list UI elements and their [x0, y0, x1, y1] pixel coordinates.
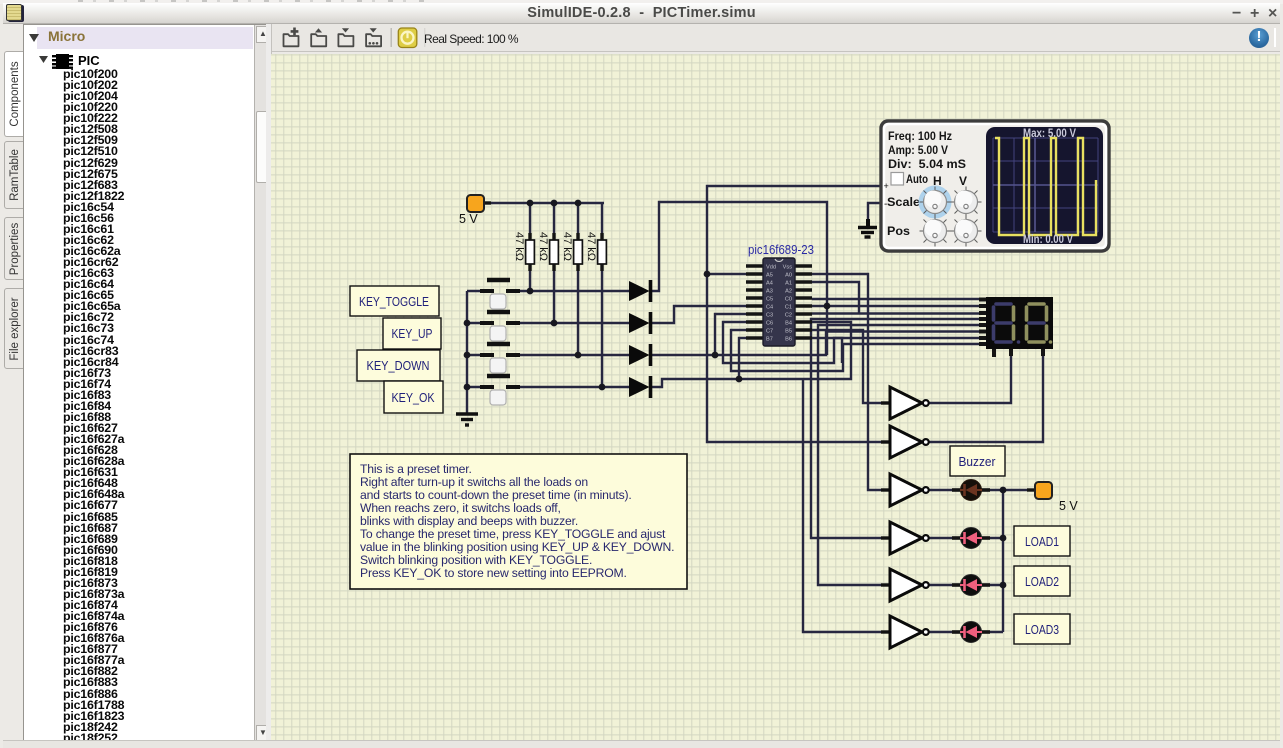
wire inverter2 out to display bottom pin3 [929, 349, 1043, 442]
switch KEY_DOWN [480, 344, 520, 373]
led LED2 [952, 575, 990, 596]
wire R1 top lead [529, 203, 531, 240]
wire net B7 stub [739, 338, 746, 379]
svg-text:+: + [884, 181, 889, 191]
wire 5V rail top [483, 202, 604, 204]
resistor R3 47k [561, 232, 582, 271]
svg-text:Scale: Scale [887, 195, 920, 209]
svg-text:Buzzer: Buzzer [959, 455, 996, 469]
svg-text:47 kΩ: 47 kΩ [561, 232, 573, 261]
wire buzzer to 5V [982, 489, 1035, 491]
resistor R1 47k [513, 232, 534, 271]
svg-text:B6: B6 [785, 337, 792, 343]
svg-text:A5: A5 [766, 273, 773, 279]
voltage source V1 5V [459, 195, 491, 226]
wire inverter4 out to led1 [929, 537, 960, 539]
svg-text:5 V: 5 V [459, 212, 478, 226]
label LOAD1 [1014, 526, 1070, 556]
svg-text:B4: B4 [785, 321, 792, 327]
inverter U6 [881, 569, 929, 601]
wire C1 to display pin2 [812, 305, 979, 307]
svg-text:V: V [959, 174, 967, 188]
wire key row3 [467, 354, 494, 356]
wire B6 to C6 net [812, 338, 842, 363]
scope screen [986, 127, 1103, 244]
inverter U4 [881, 474, 929, 506]
node led2 rail [1000, 582, 1007, 589]
svg-text:5 V: 5 V [1059, 499, 1078, 513]
svg-text:C7: C7 [766, 329, 773, 335]
node C3 [712, 352, 719, 359]
svg-text:KEY_DOWN: KEY_DOWN [367, 359, 430, 373]
svg-text:Pos: Pos [887, 224, 910, 238]
wire R4 bottom lead [601, 264, 603, 387]
svg-text:Max: 5.00 V: Max: 5.00 V [1023, 128, 1076, 140]
scope trace [995, 138, 1096, 235]
svg-text:A3: A3 [766, 289, 773, 295]
switch KEY_TOGGLE [480, 280, 520, 309]
diode D3 [629, 344, 651, 366]
wire net C6 to display pin7 [723, 322, 979, 363]
svg-text:LOAD1: LOAD1 [1025, 535, 1059, 549]
wire R4 top lead [601, 203, 603, 240]
node buzzer rail [1000, 487, 1007, 494]
wire net A5 scope and inverter2 [707, 186, 890, 442]
wire led3 to rail [982, 631, 1003, 633]
digit 2 (shows 0) [1027, 304, 1053, 344]
svg-text:To change the preset time, pre: To change the preset time, press KEY_TOG… [360, 527, 666, 541]
diode D2 [629, 312, 651, 334]
wire diode2 to C4 [650, 306, 746, 323]
wire inverter1 out to display bottom pin2 [929, 349, 1011, 403]
wire 5V anode rail [1002, 490, 1004, 632]
node rail R1 [527, 200, 534, 207]
inverter U7 [881, 616, 929, 648]
svg-text:Press KEY_OK to store new sett: Press KEY_OK to store new setting into E… [360, 566, 627, 580]
wire led1 to rail [982, 537, 1003, 539]
node row1 pullup [527, 288, 534, 295]
svg-text:47 kΩ: 47 kΩ [513, 232, 525, 261]
svg-text:pic16f689-23: pic16f689-23 [748, 243, 814, 257]
svg-text:B7: B7 [766, 337, 773, 343]
svg-text:KEY_OK: KEY_OK [392, 391, 436, 405]
svg-text:-: - [884, 199, 887, 210]
label LOAD3 [1014, 614, 1070, 644]
ground GND1 [456, 414, 478, 425]
wire net C7 to display pin8 [731, 330, 979, 371]
inverter U5 [881, 522, 929, 554]
wire A0 to inverter3 [812, 274, 890, 490]
node row4 pullup [599, 384, 606, 391]
svg-text:C1: C1 [785, 305, 792, 311]
wire R1 bottom lead [529, 264, 531, 291]
wire key row4 [467, 386, 494, 388]
wire R3 bottom lead [577, 264, 579, 355]
svg-text:Min: 0.00 V: Min: 0.00 V [1023, 234, 1073, 246]
svg-text:LOAD2: LOAD2 [1025, 575, 1059, 589]
svg-text:C4: C4 [766, 305, 773, 311]
wire ground bus [466, 291, 468, 414]
ground GND2 near scope [858, 219, 877, 237]
wire scope minus to ground [868, 203, 883, 222]
wire display pin5 to inverter5 [818, 325, 979, 585]
svg-text:Vdd: Vdd [766, 265, 776, 271]
resistor R2 47k [537, 232, 558, 271]
node bus row2 [464, 320, 471, 327]
led LED1 [952, 528, 990, 549]
wire B5 to inverter1 [812, 330, 890, 403]
buzzer BZ1 [952, 480, 990, 501]
resistor R4 47k [585, 232, 606, 271]
wire led2 to rail [982, 584, 1003, 586]
svg-text:C0: C0 [785, 297, 792, 303]
svg-text:blinks with display and beeps: blinks with display and beeps with buzze… [360, 514, 578, 528]
wire key row1 [467, 290, 494, 292]
svg-text:Switch blinking position with: Switch blinking position with KEY_TOGGLE… [360, 553, 592, 567]
svg-text:A4: A4 [766, 281, 773, 287]
svg-text:A2: A2 [785, 289, 792, 295]
node row3 pullup [575, 352, 582, 359]
label KEY_DOWN [357, 350, 440, 381]
microcontroller U1 pic16f689 [746, 243, 814, 346]
node bus row4 [464, 384, 471, 391]
seven segment display [979, 297, 1053, 357]
switch KEY_UP [480, 312, 520, 341]
svg-text:When reachs zero, it switchs l: When reachs zero, it switchs loads off, [360, 501, 561, 515]
wire diode4 to B7 node [650, 379, 739, 387]
svg-text:Auto: Auto [906, 172, 928, 186]
switch KEY_OK [480, 376, 520, 405]
wire R2 bottom lead [553, 264, 555, 323]
node row2 pullup [551, 320, 558, 327]
svg-text:C3: C3 [766, 313, 773, 319]
node A5 [704, 271, 711, 278]
svg-text:Freq: 100 Hz: Freq: 100 Hz [888, 129, 952, 143]
wire net row4 to B4 [739, 322, 851, 379]
svg-text:A0: A0 [785, 273, 792, 279]
wire R2 top lead [553, 203, 555, 240]
wire A5 branch [707, 273, 746, 275]
wire C0 to display pin1 [812, 298, 979, 300]
svg-text:C6: C6 [766, 321, 773, 327]
wire net C3 to display pin6 [715, 314, 979, 355]
wire display pin4 to inverter4 [811, 319, 979, 538]
svg-text:B5: B5 [785, 329, 792, 335]
wire diode1 to C1 via top [650, 202, 827, 355]
svg-text:Div: 5.04 mS: Div: 5.04 mS [888, 157, 966, 171]
svg-text:Right after turn-up it switchs: Right after turn-up it switchs all the l… [360, 475, 588, 489]
diode D1 [629, 280, 651, 302]
node led1 rail [1000, 535, 1007, 542]
label Buzzer [950, 446, 1005, 476]
wire R3 top lead [577, 203, 579, 240]
wire net row4 to inverter6 [803, 379, 890, 632]
wire inverter6 out to led3 [929, 631, 960, 633]
label KEY_TOGGLE [350, 286, 439, 316]
digit 1 (shows 1) [994, 304, 1021, 344]
node rail R3 [575, 200, 582, 207]
diode D4 [629, 376, 651, 398]
svg-text:KEY_TOGGLE: KEY_TOGGLE [359, 295, 429, 309]
svg-text:47 kΩ: 47 kΩ [537, 232, 549, 261]
node rail R2 [551, 200, 558, 207]
label LOAD2 [1014, 566, 1070, 596]
svg-text:Amp: 5.00 V: Amp: 5.00 V [888, 143, 948, 157]
label KEY_OK [384, 381, 443, 413]
voltage source V2 5V [1027, 482, 1078, 513]
inverter U2 [881, 387, 929, 419]
svg-text:A1: A1 [785, 281, 792, 287]
note text box [350, 454, 687, 589]
svg-text:47 kΩ: 47 kΩ [585, 232, 597, 261]
svg-text:C2: C2 [785, 313, 792, 319]
svg-text:LOAD3: LOAD3 [1025, 623, 1059, 637]
wire C2 display pin3 row [812, 312, 979, 314]
svg-text:Vss: Vss [783, 265, 793, 271]
node bus row3 [464, 352, 471, 359]
node C1 [824, 303, 831, 310]
svg-text:value in the blinking position: value in the blinking position using KEY… [360, 540, 674, 554]
svg-text:KEY_UP: KEY_UP [392, 327, 433, 341]
wire A1 to display pin3 [812, 282, 859, 313]
wire diode3 to C3 node [650, 354, 715, 356]
led LED3 [952, 622, 990, 643]
inverter U3 [881, 426, 929, 458]
wire inverter3 out to buzzer [929, 489, 960, 491]
node B7 [736, 376, 743, 383]
label KEY_UP [383, 318, 441, 349]
svg-text:This is a preset timer.: This is a preset timer. [360, 462, 472, 476]
svg-text:C5: C5 [766, 297, 773, 303]
wire inverter5 out to led2 [929, 584, 960, 586]
svg-text:and starts to count-down the p: and starts to count-down the preset time… [360, 488, 632, 502]
wire key row2 [467, 322, 494, 324]
oscilloscope [881, 121, 1109, 251]
